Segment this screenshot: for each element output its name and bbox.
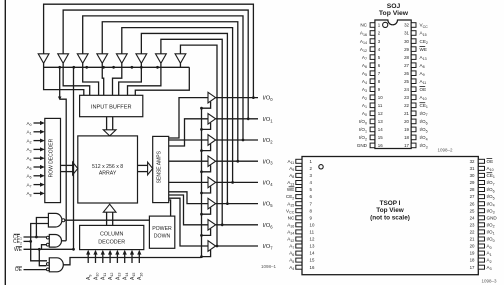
svg-text:I/O1: I/O1: [263, 117, 274, 123]
node: junction dot on I/O7 line: [216, 245, 219, 248]
pin 12: TSOP left pin A|12: [296, 237, 302, 241]
block: ROW DECODER: [45, 118, 61, 202]
pin 11: TSOP left pin A|14: [296, 230, 302, 234]
pin 10: SOJ left pin A|2: [370, 95, 375, 100]
wire: sense amps output 7 to output buffer: [169, 198, 208, 246]
wire: CE1 branch to G1 input: [36, 218, 48, 238]
wire: output buffer 2 enable stub: [202, 144, 211, 151]
wire: output buffer 4 enable stub: [202, 186, 211, 193]
wire: I/O0 feedback loop from pad to input inverter: [44, 4, 254, 97]
wire: sense amps output 4 to output buffer: [169, 181, 208, 183]
wire: I/O3 line to pad: [216, 160, 258, 162]
wire: I/O2 feedback loop from pad to input inverter: [83, 16, 243, 140]
pin 28: SOJ right pin A|13: [411, 55, 416, 60]
svg-text:30: 30: [404, 39, 409, 44]
node: CE2 branch dot: [29, 240, 32, 243]
svg-text:29: 29: [404, 47, 409, 52]
pin 3: SOJ left pin A|14: [370, 39, 375, 44]
block: INPUT BUFFER: [80, 95, 143, 116]
wire: I/O0 line to pad: [216, 97, 258, 99]
wire: G3 output to output-enable bus: [63, 258, 201, 265]
svg-text:16: 16: [378, 143, 383, 148]
svg-text:20: 20: [404, 119, 409, 124]
pin 12: SOJ left pin A|0: [370, 111, 375, 116]
pin 2: TSOP left pin A|9: [296, 166, 302, 170]
svg-text:31: 31: [470, 166, 475, 171]
wire: output buffer 0 enable stub: [202, 102, 211, 109]
pin 4: TSOP left pin A|13: [296, 181, 302, 185]
block: COLUMN DECODER: [80, 225, 144, 249]
svg-text:DOWN: DOWN: [154, 233, 171, 239]
pin 23: TSOP right pin I/O|2: [478, 223, 484, 227]
node: enable bus junction dot row 2: [200, 149, 203, 152]
pin 17: TSOP right pin A|3: [478, 265, 484, 269]
svg-text:512 x 256 x 8: 512 x 256 x 8: [92, 164, 123, 170]
pin: address input A11 to column decoder: [102, 254, 104, 263]
svg-text:27: 27: [470, 194, 475, 199]
wire: CE2 branch to G1 input: [31, 224, 49, 242]
svg-text:OE: OE: [15, 267, 23, 273]
svg-text:19: 19: [470, 251, 475, 256]
pin 17: SOJ right pin I/O|3: [411, 143, 416, 148]
pin 29: SOJ right pin /WE: [411, 47, 416, 52]
pin 5: SOJ left pin A|7: [370, 55, 375, 60]
pin 16: TSOP left pin A|4: [296, 265, 302, 269]
buffer U5: data-in inverter (triangle pointing down): [116, 54, 127, 64]
wire: input-buffer enable line under inverters: [44, 66, 190, 68]
buffer U14: I/O5 output buffer (triangle): [208, 198, 216, 209]
svg-text:TSOP I: TSOP I: [380, 200, 401, 207]
svg-text:OE: OE: [487, 159, 494, 164]
wire: inverter 6 output to INPUT BUFFER: [119, 63, 142, 95]
node: enable bus junction dot row 0: [200, 107, 203, 110]
wire: sense amps output 5 to output buffer: [169, 192, 208, 204]
svg-text:OE: OE: [420, 87, 427, 92]
wire: sense amps output 0 to output buffer: [169, 98, 208, 138]
wire: I/O7 feedback loop from pad to input inverter: [180, 45, 217, 246]
wire: WE branch to G3 input: [39, 249, 46, 265]
wire: G1 output to POWER DOWN: [65, 219, 149, 221]
svg-text:15: 15: [310, 258, 315, 263]
svg-text:I/O7: I/O7: [263, 244, 274, 250]
marker: SOJ pin 1 indicator circle: [383, 22, 388, 27]
block: POWER DOWN: [149, 216, 174, 248]
wire: vertical from enable line to WE line: [73, 67, 75, 249]
svg-text:32: 32: [470, 159, 475, 164]
pin 6: TSOP left pin CE|2: [296, 195, 302, 199]
buffer U8: data-in inverter (triangle pointing down): [175, 54, 186, 64]
pin 19: SOJ right pin I/O|5: [411, 127, 416, 132]
pin 16: SOJ left pin GND: [370, 143, 375, 148]
pin: address input A15 to column decoder: [131, 254, 133, 263]
pin: address input A14 to column decoder: [124, 254, 126, 263]
svg-text:1098–3: 1098–3: [481, 279, 497, 284]
node: enable line junction dot 4: [102, 66, 105, 69]
svg-text:25: 25: [404, 79, 409, 84]
wire: inverter 7 output to INPUT BUFFER: [128, 63, 161, 95]
svg-text:22: 22: [404, 103, 409, 108]
buffer U9: I/O0 output buffer (triangle): [208, 92, 216, 103]
wire: WE branch to G2 input: [42, 245, 47, 250]
arrow: INPUT BUFFER to ARRAY (open double arrow): [106, 117, 108, 131]
svg-text:POWER: POWER: [152, 226, 172, 232]
svg-text:21: 21: [470, 237, 475, 242]
package: SOJ top view outline: [375, 20, 411, 149]
svg-text:WE: WE: [420, 47, 427, 52]
svg-text:10: 10: [310, 222, 315, 227]
pin 23: SOJ right pin A|10: [411, 95, 416, 100]
buffer U1: data-in inverter (triangle pointing down): [38, 54, 49, 64]
buffer U12: I/O3 output buffer (triangle): [208, 156, 216, 167]
wire: I/O2 line to pad: [216, 139, 258, 141]
pin 27: TSOP right pin I/O|5: [478, 195, 484, 199]
buffer U10: I/O1 output buffer (triangle): [208, 114, 216, 125]
svg-text:14: 14: [378, 127, 383, 132]
node: enable line junction dot 3: [85, 66, 88, 69]
pin 8: TSOP left pin V|CC: [296, 209, 302, 213]
wire: inverter 4 output to INPUT BUFFER: [102, 63, 103, 95]
svg-text:(not to scale): (not to scale): [370, 214, 410, 221]
pin 30: SOJ right pin CE|2: [411, 39, 416, 44]
gate G2: NAND/NOR control gate: [49, 235, 61, 248]
gate G3: NAND/NOR control gate: [49, 258, 63, 272]
wire: I/O1 line to pad: [216, 118, 258, 120]
pin 7: SOJ left pin A|5: [370, 71, 375, 76]
arrow: COLUMN DECODER to ARRAY (open arrow up): [106, 212, 108, 226]
wire: I/O3 feedback loop from pad to input inverter: [102, 22, 238, 161]
buffer U7: data-in inverter (triangle pointing down): [156, 54, 167, 64]
node: enable line junction dot 2: [72, 66, 75, 69]
pin 25: TSOP right pin I/O|3: [478, 209, 484, 213]
wire: CE2 branch to G3 input: [31, 241, 47, 260]
node: junction dot on I/O0 line: [252, 96, 255, 99]
svg-text:32: 32: [404, 23, 409, 28]
pin 11: SOJ left pin A|1: [370, 103, 375, 108]
wire: output buffer 3 enable stub: [202, 165, 211, 172]
svg-text:I/O3: I/O3: [263, 159, 274, 165]
node: enable line junction dot 6: [131, 66, 134, 69]
svg-text:28: 28: [404, 55, 409, 60]
gate G1: NAND/NOR control gate: [48, 213, 61, 227]
svg-text:WE: WE: [287, 187, 294, 192]
svg-text:26: 26: [404, 71, 409, 76]
buffer U2: data-in inverter (triangle pointing down): [58, 54, 69, 64]
svg-text:NC: NC: [288, 215, 295, 220]
svg-text:I/O6: I/O6: [263, 223, 274, 229]
pin 31: TSOP right pin A|10: [478, 166, 484, 170]
wire: sense amps output 1 to output buffer: [169, 119, 208, 146]
svg-text:15: 15: [378, 135, 383, 140]
node: junction dot on I/O2 line: [242, 139, 245, 142]
pin: address input A10 to column decoder: [95, 254, 97, 263]
buffer U15: I/O6 output buffer (triangle): [208, 220, 216, 231]
svg-text:20: 20: [470, 244, 475, 249]
wire: inverter 5 output to INPUT BUFFER: [113, 63, 122, 95]
wire: I/O6 line to pad: [216, 224, 258, 226]
pin 3: TSOP left pin A|8: [296, 173, 302, 177]
svg-text:11: 11: [310, 230, 315, 235]
svg-text:WE: WE: [14, 247, 23, 253]
svg-text:23: 23: [470, 222, 475, 227]
svg-text:GND: GND: [487, 215, 498, 220]
svg-text:I/O4: I/O4: [263, 181, 274, 187]
svg-text:11: 11: [378, 103, 383, 108]
pin 20: TSOP right pin A|0: [478, 244, 484, 248]
node: enable bus junction dot row 7: [200, 255, 203, 258]
svg-text:SENSE AMPS: SENSE AMPS: [157, 150, 163, 183]
wire: output buffer 7 enable stub: [202, 250, 211, 257]
pin 14: TSOP left pin A|6: [296, 251, 302, 255]
wire: inverter 2 output to INPUT BUFFER: [63, 63, 90, 95]
wire: G2 output stub: [62, 240, 67, 242]
node: enable line junction dot 1: [58, 66, 61, 69]
wire: I/O1 feedback loop from pad to input inverter: [63, 10, 248, 119]
pin 19: TSOP right pin A|1: [478, 251, 484, 255]
svg-text:23: 23: [404, 95, 409, 100]
wire: I/O6 feedback loop from pad to input inverter: [161, 39, 222, 225]
svg-text:29: 29: [470, 180, 475, 185]
svg-text:28: 28: [470, 187, 475, 192]
svg-text:I/O5: I/O5: [263, 202, 274, 208]
pin 28: TSOP right pin I/O|6: [478, 188, 484, 192]
svg-text:21: 21: [404, 111, 409, 116]
pin 32: SOJ right pin V|CC: [411, 23, 416, 28]
arrow: ROW DECODER to ARRAY (open arrow): [61, 164, 74, 166]
pin 4: SOJ left pin A|12: [370, 47, 375, 52]
wire: I/O4 feedback loop from pad to input inverter: [122, 28, 233, 183]
wire: write enable from gate G2 up to input enable line: [59, 67, 61, 99]
node: enable line junction dot 7: [140, 66, 143, 69]
svg-text:Top View: Top View: [379, 10, 409, 17]
pin 22: SOJ right pin /CE|1: [411, 103, 416, 108]
pin 2: SOJ left pin A|16: [370, 31, 375, 36]
wire: I/O7 line to pad: [216, 245, 258, 247]
svg-text:14: 14: [310, 251, 315, 256]
svg-text:16: 16: [310, 265, 315, 270]
wire: output enable bus vertical: [201, 108, 203, 257]
svg-text:27: 27: [404, 63, 409, 68]
pin 9: SOJ left pin A|3: [370, 87, 375, 92]
node: junction dot on I/O1 line: [247, 117, 250, 120]
block: 512 x 256 x 8 ARRAY: [78, 136, 138, 203]
pin 21: TSOP right pin I/O|0: [478, 237, 484, 241]
wire: I/O4 line to pad: [216, 181, 258, 183]
pin 13: SOJ left pin I/O|0: [370, 119, 375, 124]
pin 31: SOJ right pin A|15: [411, 31, 416, 36]
pin 13: TSOP left pin A|7: [296, 244, 302, 248]
wire: sense amps output 6 to output buffer: [169, 195, 208, 225]
node: WE branch dot: [38, 248, 41, 251]
svg-text:I/O2: I/O2: [263, 138, 274, 144]
pin 24: TSOP right pin GND: [478, 216, 484, 220]
pin: address input A9 to column decoder: [87, 254, 89, 263]
svg-text:17: 17: [404, 143, 409, 148]
pin 15: SOJ left pin I/O|2: [370, 135, 375, 140]
node: CE1 branch dot: [35, 236, 38, 239]
node: enable bus junction dot row 1: [200, 128, 203, 131]
svg-text:24: 24: [470, 215, 475, 220]
bubble: G2 input bubbles: [46, 236, 49, 239]
pin 15: TSOP left pin A|5: [296, 258, 302, 262]
wire: sense amps output 2 to output buffer: [169, 139, 208, 141]
svg-text:13: 13: [378, 119, 383, 124]
pin 21: SOJ right pin I/O|7: [411, 111, 416, 116]
node: junction dot on I/O5 line: [226, 202, 229, 205]
svg-text:INPUT BUFFER: INPUT BUFFER: [91, 105, 132, 111]
svg-text:26: 26: [470, 201, 475, 206]
wire: inverter 3 output to INPUT BUFFER: [83, 63, 99, 95]
pin 22: TSOP right pin I/O|1: [478, 230, 484, 234]
pin 27: SOJ right pin A|8: [411, 63, 416, 68]
svg-text:10: 10: [378, 95, 383, 100]
package: TSOP I top view outline: [302, 157, 478, 275]
wire: output buffer 5 enable stub: [202, 208, 211, 215]
node: junction dot on I/O4 line: [231, 181, 234, 184]
node: enable bus junction dot row 6: [200, 234, 203, 237]
buffer U11: I/O2 output buffer (triangle): [208, 135, 216, 146]
wire: output buffer 1 enable stub: [202, 123, 211, 130]
buffer U4: data-in inverter (triangle pointing down): [97, 54, 108, 64]
pin 24: SOJ right pin /OE: [411, 87, 416, 92]
wire: sense amps output 3 to output buffer: [169, 160, 208, 162]
svg-text:12: 12: [310, 237, 315, 242]
wire: sense amps to power down: [169, 200, 171, 216]
node: enable bus junction dot row 4: [200, 192, 203, 195]
buffer U6: data-in inverter (triangle pointing down): [136, 54, 147, 64]
node: enable line junction dot 8: [156, 66, 159, 69]
wire: I/O5 feedback loop from pad to input inverter: [141, 33, 227, 203]
block: SENSE AMPS: [153, 136, 169, 202]
border: page frame left edge: [4, 0, 6, 285]
pin 6: SOJ left pin A|6: [370, 63, 375, 68]
pin 26: TSOP right pin I/O|4: [478, 202, 484, 206]
pin 1: TSOP left pin A|11: [296, 159, 302, 163]
bubble: G3 input bubbles: [46, 263, 49, 266]
svg-text:GND: GND: [357, 143, 368, 148]
pin 10: TSOP left pin A|16: [296, 223, 302, 227]
pin 9: TSOP left pin NC: [296, 216, 302, 220]
svg-text:12: 12: [378, 111, 383, 116]
node: enable bus junction dot row 3: [200, 170, 203, 173]
pin 25: SOJ right pin A|11: [411, 79, 416, 84]
pin 8: SOJ left pin A|4: [370, 79, 375, 84]
svg-text:18: 18: [404, 135, 409, 140]
svg-text:1098–1: 1098–1: [261, 264, 277, 269]
pin 18: SOJ right pin I/O|4: [411, 135, 416, 140]
svg-text:30: 30: [470, 173, 475, 178]
svg-text:31: 31: [404, 31, 409, 36]
wire: I/O5 line to pad: [216, 203, 258, 205]
pin: address input A12 to column decoder: [109, 254, 111, 263]
pin 5: TSOP left pin /WE: [296, 188, 302, 192]
wire: output buffer 6 enable stub: [202, 229, 211, 236]
node: junction dot on I/O6 line: [221, 223, 224, 226]
svg-text:NC: NC: [360, 23, 367, 28]
pin 14: SOJ left pin I/O|1: [370, 127, 375, 132]
pin 30: TSOP right pin /CE|1: [478, 173, 484, 177]
buffer U16: I/O7 output buffer (triangle): [208, 241, 216, 252]
svg-text:1098–2: 1098–2: [437, 148, 453, 153]
marker: TSOP pin 1 indicator circle: [319, 165, 323, 169]
wire: inverter 1 output to INPUT BUFFER: [44, 63, 84, 95]
node: enable bus junction dot row 5: [200, 213, 203, 216]
arrow: ARRAY to SENSE AMPS (open arrow): [138, 164, 149, 166]
svg-text:17: 17: [470, 265, 475, 270]
pin 20: SOJ right pin I/O|6: [411, 119, 416, 124]
pin 32: TSOP right pin /OE: [478, 159, 484, 163]
node: enable line junction dot 5: [112, 66, 115, 69]
svg-text:DECODER: DECODER: [98, 239, 125, 245]
svg-text:24: 24: [404, 87, 409, 92]
pin 29: TSOP right pin I/O|7: [478, 181, 484, 185]
pin: address input A13 to column decoder: [116, 254, 118, 263]
svg-text:25: 25: [470, 208, 475, 213]
pin: address input A16 to column decoder: [138, 254, 140, 263]
buffer U3: data-in inverter (triangle pointing down): [77, 54, 88, 64]
svg-text:ROW DECODER: ROW DECODER: [49, 138, 55, 177]
pin 1: SOJ left pin NC: [370, 23, 375, 28]
wire: inverter 8 output to INPUT BUFFER: [179, 63, 181, 67]
svg-text:I/O0: I/O0: [263, 96, 274, 102]
node: junction dot on I/O3 line: [236, 160, 239, 163]
node: WE to data path dot: [72, 248, 75, 251]
pin 18: TSOP right pin A|2: [478, 258, 484, 262]
pin 26: SOJ right pin A|9: [411, 71, 416, 76]
svg-text:19: 19: [404, 127, 409, 132]
svg-text:13: 13: [310, 244, 315, 249]
svg-text:18: 18: [470, 258, 475, 263]
svg-text:ARRAY: ARRAY: [99, 171, 117, 177]
svg-text:COLUMN: COLUMN: [100, 231, 123, 237]
svg-text:22: 22: [470, 230, 475, 235]
svg-text:Top View: Top View: [376, 207, 403, 214]
buffer U13: I/O4 output buffer (triangle): [208, 177, 216, 188]
pin 7: TSOP left pin A|15: [296, 202, 302, 206]
